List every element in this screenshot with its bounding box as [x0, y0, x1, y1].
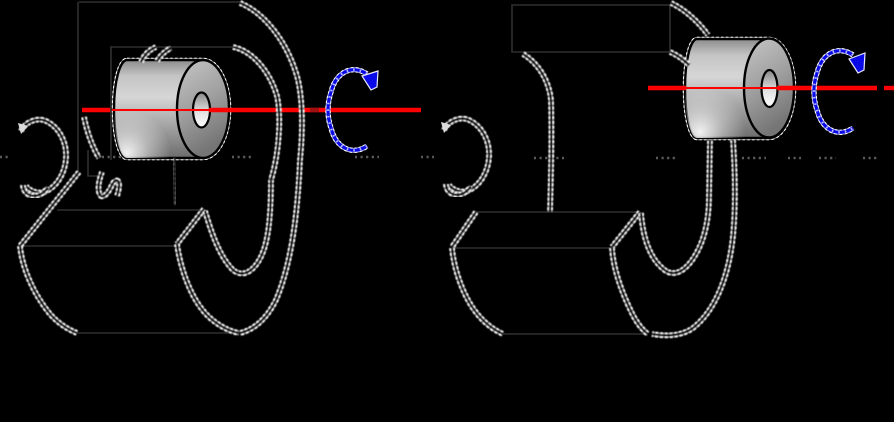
ghost wheel outer arc (left) [240, 3, 302, 333]
blue rotation arrow arc (left) [328, 70, 367, 151]
ghost wheel inner-left vertical (left) [174, 158, 175, 205]
ghost wheel inner hook (right) [641, 140, 710, 273]
ghost box lower-left curve (left) [20, 246, 77, 333]
cylinder body (right) [685, 39, 794, 138]
right frame rectangle [512, 5, 670, 52]
ghost arm diagonal (left) [20, 172, 79, 246]
ghost notch diagonal (left) [177, 209, 204, 244]
red axis thick left segment (left) [82, 108, 111, 112]
ghost rim arc b above cylinder (left) [157, 48, 171, 61]
right box line 3 [503, 333, 648, 335]
ghost hand zigzag (left) [99, 172, 120, 196]
left frame left vertical [77, 2, 79, 173]
blue rotation arrow arc (right) [814, 51, 853, 133]
ghost wheel left arc (right) [523, 54, 551, 212]
ghost box right-bottom curve (right) [612, 248, 648, 334]
left frame inner vertical over red [110, 47, 112, 160]
dash-dot reference axis line (right figure) [534, 157, 877, 159]
ghost finger arc (left) [84, 117, 99, 158]
ghost head chin curl (left) [23, 185, 48, 196]
left frame small L [88, 150, 101, 176]
cylinder halo (left) [114, 60, 229, 158]
ghost head arrow tick (left) [18, 123, 28, 134]
left frame second horizontal [110, 46, 236, 48]
ghost wheel inner hook (left) [205, 180, 271, 273]
red axis thin segment over cylinder (right) [684, 87, 777, 89]
red axis thick left segment (right) [648, 86, 686, 90]
ghost wheel top arc a (right) [671, 3, 708, 35]
cylinder right face (left) [177, 60, 229, 158]
red axis end dash (right) [884, 86, 894, 90]
ghost rim arc a above cylinder (left) [141, 47, 156, 62]
cylinder right face (right) [744, 39, 794, 138]
ghost head (right figure) [444, 119, 489, 192]
blue arrowhead (left) [362, 71, 378, 90]
ghost head chin curl (right) [446, 184, 471, 195]
ghost diagonal (right) [452, 212, 476, 247]
red axis dim overlap segment (left) [310, 108, 319, 112]
red axis thin segment over cylinder (left) [111, 109, 209, 111]
ghost wheel inner arc top (left) [233, 47, 279, 180]
ghost notch diagonal (right) [612, 212, 640, 247]
left frame top horizontal [79, 1, 240, 3]
blue arrowhead (right) [849, 53, 865, 73]
red axis thick right segment (right) [777, 86, 877, 90]
ghost wheel outer hook (right) [652, 140, 735, 335]
cylinder left cap bottom glow (right) [685, 39, 794, 138]
ghost box left-bottom curve (right) [452, 248, 503, 334]
red axis thick right segment (left) [209, 108, 421, 112]
right box line 1 [476, 211, 640, 213]
cylinder left cap bottom glow (left) [114, 60, 229, 158]
left box line 1 [57, 209, 204, 211]
ghost box left-bottom curve (left) [177, 244, 239, 333]
ghost head (left figure) [21, 120, 66, 193]
left box line 2 [20, 245, 176, 247]
right box line 2 [452, 247, 612, 249]
dash-dot reference axis line (left figure) [0, 156, 434, 158]
cylinder body (left) [114, 60, 229, 158]
cylinder hub hole (left) [193, 93, 210, 128]
cylinder halo (right) [685, 39, 794, 138]
ghost head arrow tick (right) [441, 122, 451, 133]
cylinder hub hole (right) [762, 70, 778, 107]
left box line 3 [77, 332, 239, 334]
ghost wheel top arc b (right) [670, 52, 689, 65]
